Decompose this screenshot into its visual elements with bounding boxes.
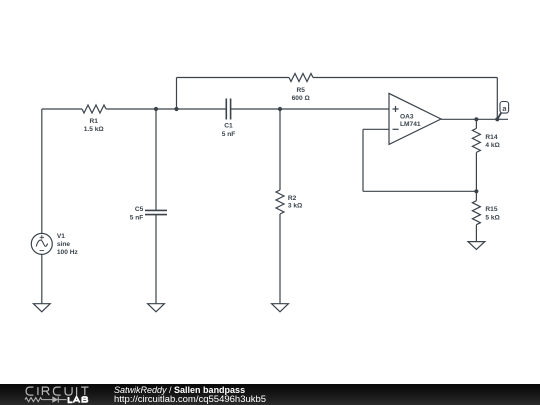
voltage source V1 [31,233,52,254]
wire feedback drop to output node [496,78,498,120]
svg-text:R14: R14 [485,134,497,141]
svg-text:R2: R2 [288,195,297,202]
footer title text [114,386,245,396]
svg-text:V1: V1 [57,233,65,240]
CircuitLab logo [0,384,100,405]
label C1 value [222,123,236,138]
op-amp OA3 [389,93,441,144]
label R14 value [485,134,500,149]
label OA3 name [400,113,421,128]
ground below V1 [33,304,50,312]
footer url text [114,395,266,405]
wire V1 to ground [41,254,43,303]
label flag a text [503,107,507,111]
svg-text:R15: R15 [485,206,497,213]
svg-text:1.5 kΩ: 1.5 kΩ [84,126,105,133]
svg-text:R5: R5 [296,87,305,94]
svg-text:5 nF: 5 nF [130,214,144,221]
ground below C5 [148,304,165,312]
svg-text:5 kΩ: 5 kΩ [485,214,500,221]
wire C1 to op-amp + input [231,108,389,110]
resistor R15 [472,201,480,225]
label R15 value [485,206,500,221]
wire R14 upper lead [475,119,477,128]
node junction at feedback tap [174,107,178,111]
resistor R2 [276,190,284,214]
wire top feedback left segment [177,77,290,79]
node junction at R2 tap [278,107,282,111]
label R2 value [288,195,303,210]
svg-text:600 Ω: 600 Ω [292,95,311,102]
wire C5 branch lower [155,215,157,304]
ground below R15 [468,242,485,250]
wire R2 branch upper [279,109,281,190]
svg-text:100 Hz: 100 Hz [57,249,79,256]
label V1 value [57,233,79,256]
wire R1 to C1 [106,108,226,110]
wire feedback bottom horizontal [363,190,476,192]
wire op-amp output [441,118,508,120]
node junction at R14 R15 feedback [474,189,478,193]
svg-text:5 nF: 5 nF [222,131,236,138]
node junction at output R14 tap [474,117,478,121]
label R1 value [84,118,105,133]
wire R15 to ground [475,225,477,242]
wire main horizontal V1-corner to R1 [42,108,82,110]
label R5 value [292,87,311,102]
label C5 value [130,206,144,221]
svg-text:3 kΩ: 3 kΩ [288,203,303,210]
wire R15 upper lead [475,191,477,200]
wire top feedback right segment [313,77,497,79]
svg-text:R1: R1 [89,118,98,125]
node flag a [497,102,508,120]
node junction at C5 tap [154,107,158,111]
capacitor C1 [226,99,230,120]
wire feedback left vertical [362,129,364,191]
wire R2 branch lower [279,214,281,304]
footer bar [0,384,540,405]
resistor R1 [82,105,106,113]
wire C5 branch upper [155,109,157,210]
ground below R2 [272,304,289,312]
svg-text:LM741: LM741 [400,121,421,128]
wire feedback riser up [176,78,178,110]
svg-text:sine: sine [57,241,71,248]
svg-text:C1: C1 [224,123,233,130]
resistor R5 [289,74,313,82]
svg-text:OA3: OA3 [400,113,414,120]
node junction at output flag tap [495,117,499,121]
wire op-amp inverting input [363,128,389,130]
capacitor C5 [145,210,167,214]
svg-text:4 kΩ: 4 kΩ [485,142,500,149]
resistor R14 [472,128,480,152]
wire R14 lower lead [475,152,477,191]
wire left vertical from R1 input down to V1 [41,109,43,233]
svg-text:C5: C5 [135,206,144,213]
